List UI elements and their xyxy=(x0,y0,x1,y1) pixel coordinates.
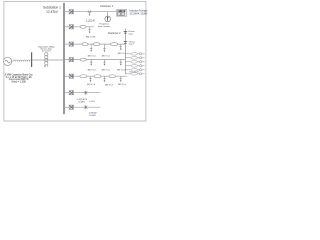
load label row 7 xyxy=(89,113,97,117)
load label row 6 xyxy=(76,99,88,104)
svg-text:MCC-6 0.48: MCC-6 0.48 xyxy=(129,72,138,74)
cable row 3 c xyxy=(111,43,118,46)
wire bus B2 to transformer T1 xyxy=(32,59,64,61)
cable row 4 xyxy=(80,58,86,61)
svg-text:Customer 1: Customer 1 xyxy=(100,5,114,8)
svg-text:Customer 2: Customer 2 xyxy=(108,32,121,35)
svg-text:5.08 kW: 5.08 kW xyxy=(89,113,97,115)
svg-text:480 V Ld: 480 V Ld xyxy=(87,56,95,58)
induction furnace label xyxy=(129,9,148,15)
customer 3 load branches xyxy=(0,0,145,55)
cable row 5 a xyxy=(80,75,87,78)
capacitor bank 2 xyxy=(124,40,136,45)
load tap row 3 at x104 xyxy=(102,44,110,58)
branch 4 xyxy=(125,65,139,67)
wire bus to breaker CB1 xyxy=(64,11,69,13)
cable row 5 c xyxy=(109,75,115,78)
breaker CB5 xyxy=(69,74,73,78)
cable row 5 b xyxy=(94,75,101,78)
drawing frame xyxy=(4,1,146,121)
svg-text:480 V Ld: 480 V Ld xyxy=(87,84,95,86)
svg-text:12.47kV: 12.47kV xyxy=(46,10,59,14)
feeder wire row 6 xyxy=(74,92,101,94)
feeder wire row 2 xyxy=(74,26,95,28)
load tap arrow row1 xyxy=(89,12,91,16)
svg-text:6.47kV: 6.47kV xyxy=(89,115,96,117)
load tap row 4 at x104 xyxy=(102,60,110,72)
cable row 3 b xyxy=(93,43,100,46)
svg-text:480 V Ld: 480 V Ld xyxy=(118,84,126,86)
load tap row 5 at x120 xyxy=(118,76,126,86)
main bus Substation 1 xyxy=(63,3,65,114)
load tap row 3 at x120 xyxy=(118,44,126,55)
svg-text:1_2(1) N: 1_2(1) N xyxy=(86,21,95,23)
svg-text:6.47kV: 6.47kV xyxy=(79,102,86,104)
svg-text:Bld 1 3 Ph: Bld 1 3 Ph xyxy=(86,37,96,39)
branch 1 xyxy=(125,53,139,55)
svg-text:480 V Ld: 480 V Ld xyxy=(102,70,110,72)
wire generator to impedance xyxy=(12,60,14,62)
source impedance coil xyxy=(13,60,31,61)
wire bus to breaker CB6 xyxy=(64,92,69,94)
frequency scan probe xyxy=(105,12,111,22)
svg-text:Frequency: Frequency xyxy=(99,24,108,26)
load tap row 4 at x91 xyxy=(87,60,95,72)
feeder wire row 5 xyxy=(74,75,128,77)
breaker CB3 xyxy=(69,42,73,46)
motor symbol row 7 xyxy=(84,105,87,109)
svg-text:480 V Ld: 480 V Ld xyxy=(118,53,126,55)
utility bus B2 xyxy=(31,52,33,67)
svg-text:f(res) = 1.008: f(res) = 1.008 xyxy=(12,81,27,84)
branch 6 xyxy=(125,73,139,75)
transformer winding letters xyxy=(44,65,49,68)
branch 2 xyxy=(125,57,139,59)
bus label Substation 1 12.47kV xyxy=(43,6,61,14)
feeder wire row 7 xyxy=(74,106,101,108)
wire bus to breaker CB2 xyxy=(64,26,69,28)
load tap row 5 at x90 xyxy=(87,76,95,86)
frequency scan label xyxy=(98,24,110,28)
svg-text:MCC-5 0.48: MCC-5 0.48 xyxy=(0,0,24,2)
svg-text:6.47kV: 6.47kV xyxy=(89,101,95,103)
wire bus to breaker CB3 xyxy=(64,43,69,45)
wire bus to breaker CB7 xyxy=(64,106,69,108)
breaker CB7 xyxy=(69,105,73,109)
feeder wire row 4 xyxy=(64,59,125,61)
svg-text:Cap 2: Cap 2 xyxy=(129,44,134,46)
induction furnace icon xyxy=(117,9,127,16)
utility generator G1 xyxy=(4,57,12,65)
motor symbol row 6 xyxy=(84,91,87,95)
riser Customer 2 and 3 xyxy=(124,29,126,74)
svg-text:480 V Ld: 480 V Ld xyxy=(105,85,113,87)
svg-text:1_4(2) k Ph: 1_4(2) k Ph xyxy=(76,99,88,101)
branch 5 xyxy=(125,69,139,71)
transformer T1 xyxy=(45,53,48,65)
source note text block xyxy=(5,73,34,83)
svg-text:D: D xyxy=(44,65,46,68)
svg-text:Z=1.15%: Z=1.15% xyxy=(42,51,51,53)
feeder wire row 1 xyxy=(74,11,117,13)
feeder wire row 3 xyxy=(74,43,126,45)
inline disconnect ticks xyxy=(88,10,91,13)
load tap row 5 at x104 xyxy=(103,76,113,86)
breaker CB6 xyxy=(69,91,73,95)
cable row 2 xyxy=(80,25,86,28)
load tap row 3 at x91 xyxy=(87,44,95,58)
breaker CB1 xyxy=(69,10,73,14)
svg-text:480 V Ld: 480 V Ld xyxy=(87,70,95,72)
svg-text:480 V Ld: 480 V Ld xyxy=(102,56,110,58)
svg-text:Cap 1: Cap 1 xyxy=(128,33,133,35)
load tap row 4 at x120 xyxy=(117,60,125,72)
svg-text:Substation 1: Substation 1 xyxy=(43,6,61,10)
transformer T1 label xyxy=(38,46,55,53)
svg-text:480 V Ld: 480 V Ld xyxy=(117,70,125,72)
branch 3 xyxy=(125,61,139,63)
wire bus to breaker CB5 xyxy=(64,75,69,77)
cable row 3 a xyxy=(82,43,88,46)
load tap row 2 xyxy=(89,27,91,33)
capacitor bank 1 xyxy=(124,30,135,35)
breaker CB2 xyxy=(69,25,73,29)
breaker CB4 xyxy=(69,58,73,62)
